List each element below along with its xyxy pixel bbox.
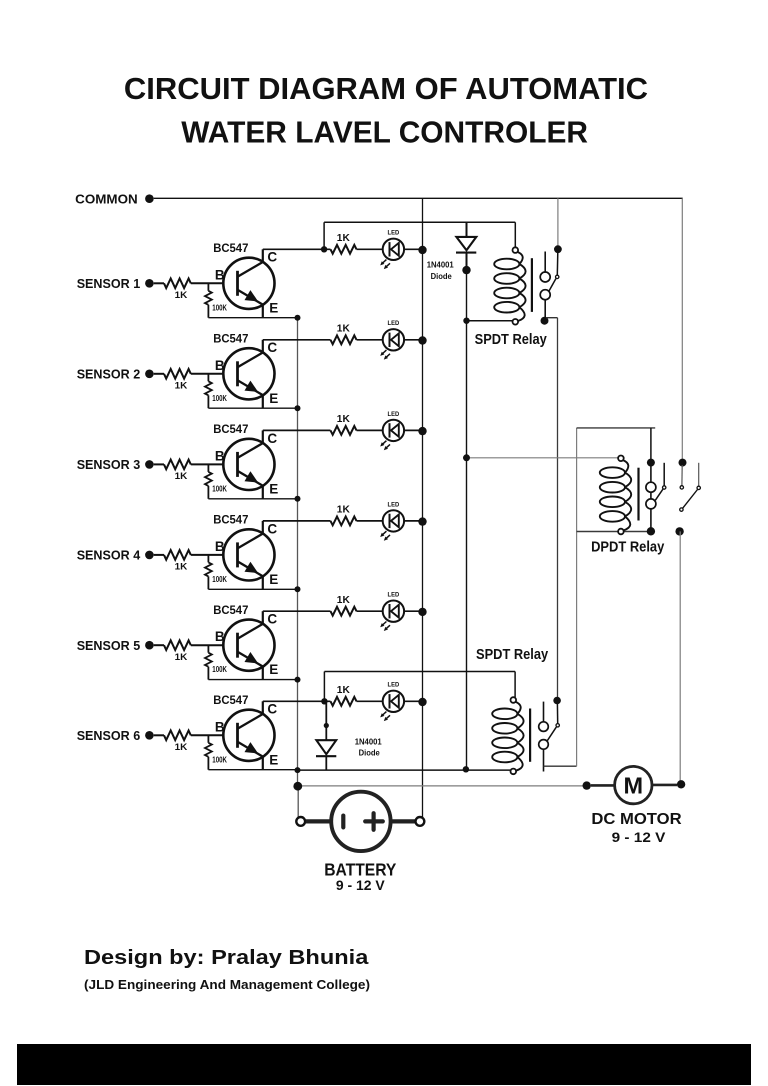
svg-text:C: C — [267, 340, 277, 355]
junction emitter bus sensor 2 — [295, 405, 301, 411]
resistor 1K series (sensor 3 base) — [164, 460, 191, 470]
junction battery minus — [293, 782, 302, 791]
svg-text:1K: 1K — [337, 324, 350, 335]
junction LED bus row 2 — [418, 336, 426, 344]
wire relay K2 pole riser to DPDT — [576, 428, 578, 766]
wire 1K to LED3 — [357, 429, 383, 431]
wire LED5 to bus — [404, 610, 422, 612]
svg-text:100K: 100K — [212, 575, 227, 584]
DPDT right pivot circle A — [680, 486, 683, 489]
motor M1 left lead — [591, 784, 615, 787]
relay K2 NC contact stub — [543, 702, 545, 722]
transistor Q3 BC547 — [223, 439, 274, 490]
svg-text:1K: 1K — [337, 685, 350, 696]
wire emitter row to ground bus (sensor 2) — [208, 407, 297, 409]
wire DPDT right pole to motor — [679, 531, 681, 784]
svg-text:1K: 1K — [175, 471, 188, 482]
junction motor right terminal — [677, 780, 685, 788]
junction LED bus row 3 — [418, 427, 426, 435]
wire DPDT right switch feed from COMMON — [681, 198, 683, 462]
junction LED bus row 1 — [418, 246, 426, 254]
svg-text:E: E — [269, 572, 278, 587]
diode D7 1N4001 (relay 1 flyback) — [456, 222, 476, 270]
LED D2 — [380, 329, 404, 360]
resistor 100K (sensor 3 base-emitter) — [205, 464, 212, 498]
wire 1K to LED2 — [357, 339, 383, 341]
wire relay K2 coil bottom return line — [298, 769, 511, 771]
svg-text:100K: 100K — [212, 484, 227, 493]
wire relay K1 pole out — [546, 317, 558, 319]
svg-text:C: C — [267, 250, 277, 265]
svg-text:B: B — [215, 267, 225, 282]
DPDT left switch arm — [655, 489, 663, 500]
svg-text:1K: 1K — [337, 233, 350, 244]
wire LED2 to bus — [404, 339, 422, 341]
node SENSOR 5 terminal dot — [145, 641, 154, 650]
transistor Q4 BC547 — [223, 529, 274, 580]
battery BT1 terminal plus — [416, 817, 425, 826]
battery BT1 minus bar symbol — [341, 816, 345, 828]
relay K2 pole pivot circle — [556, 724, 559, 727]
wire base of Q6 — [191, 734, 238, 736]
wire emitter of Q1 down — [262, 305, 264, 318]
wire collector row (sensor 6) — [263, 700, 331, 702]
wire COMMON horizontal rail — [154, 197, 683, 199]
wire relay K2 pole out — [544, 765, 577, 767]
svg-text:LED: LED — [388, 411, 400, 418]
wire collector of Q4 up to row — [262, 521, 264, 534]
footer bar — [17, 1044, 751, 1085]
junction relay K1 pole — [541, 317, 549, 325]
resistor 1K series (sensor 4 base) — [164, 550, 191, 560]
svg-text:E: E — [269, 300, 278, 315]
junction collector node sensor 6 — [321, 698, 327, 704]
node COMMON terminal dot — [145, 194, 154, 203]
svg-text:100K: 100K — [212, 394, 227, 403]
svg-text:Diode: Diode — [359, 747, 381, 757]
junction return bus to DPDT coil — [463, 454, 470, 461]
wire collector of Q5 up to row — [262, 611, 264, 624]
wire collector of Q2 up to row — [262, 340, 264, 353]
LED D5 — [380, 601, 404, 632]
relay K1 switch arm — [549, 279, 556, 291]
wire sensor 5 input — [154, 644, 164, 646]
svg-text:B: B — [215, 719, 225, 734]
wire sensor 6 diode branch down — [325, 701, 327, 740]
wire DPDT left switch feed drop — [650, 428, 652, 463]
svg-text:SENSOR 1: SENSOR 1 — [77, 276, 141, 291]
junction relay K1 switch feed — [554, 245, 562, 253]
svg-text:BC547: BC547 — [213, 241, 248, 255]
wire DPDT right pole lead — [681, 465, 683, 486]
wire collector of Q1 up to row — [262, 249, 264, 262]
relay K1 core bar — [531, 258, 533, 312]
wire sensor 2 input — [154, 373, 164, 375]
resistor 1K (LED row 5) — [331, 607, 357, 616]
wire relay 2 coil feed line — [324, 671, 515, 673]
wire collector node 6 up — [323, 672, 325, 702]
svg-text:9 - 12 V: 9 - 12 V — [336, 878, 385, 894]
battery BT1 terminal minus — [296, 817, 305, 826]
wire emitter of Q2 down — [262, 395, 264, 408]
svg-text:BC547: BC547 — [213, 422, 248, 436]
relay K2 contact circle lower — [539, 740, 549, 750]
svg-text:9 - 12 V: 9 - 12 V — [612, 830, 666, 846]
relay K2 switch pole lead — [556, 703, 558, 723]
svg-text:100K: 100K — [212, 303, 227, 312]
svg-text:E: E — [269, 391, 278, 406]
resistor 100K (sensor 2 base-emitter) — [205, 374, 212, 408]
svg-text:(JLD Engineering And Managemen: (JLD Engineering And Management College) — [84, 978, 370, 992]
wire relay 2 coil top drop — [514, 672, 516, 698]
junction ground / return line — [295, 767, 301, 773]
svg-text:B: B — [215, 629, 225, 644]
relay K2 core bar — [529, 709, 531, 762]
svg-text:BATTERY: BATTERY — [324, 860, 396, 880]
wire collector row (sensor 5) — [263, 610, 331, 612]
battery BT1 plus lead — [391, 819, 416, 823]
svg-text:SENSOR 2: SENSOR 2 — [77, 367, 141, 382]
wire sensor 4 input — [154, 554, 164, 556]
wire 1K to LED6 — [357, 700, 383, 702]
svg-text:SPDT Relay: SPDT Relay — [476, 646, 549, 663]
resistor 1K (LED row 4) — [331, 517, 357, 526]
wire collector of Q3 up to row — [262, 430, 264, 443]
wire 1K to LED1 — [357, 248, 383, 250]
svg-text:Diode: Diode — [431, 271, 453, 281]
svg-text:BC547: BC547 — [213, 603, 248, 617]
motor M1 right lead — [652, 784, 677, 787]
svg-text:LED: LED — [388, 501, 400, 508]
wire collector row (sensor 1) — [263, 248, 331, 250]
LED D6 — [380, 691, 404, 722]
svg-text:1K: 1K — [175, 562, 188, 573]
svg-text:B: B — [215, 539, 225, 554]
svg-text:BC547: BC547 — [213, 331, 248, 345]
relay K2 coil — [492, 697, 523, 774]
wire LED1 to bus — [404, 248, 422, 250]
svg-text:SENSOR 4: SENSOR 4 — [77, 548, 141, 563]
junction motor left terminal — [583, 781, 591, 789]
transistor Q5 BC547 — [223, 620, 274, 671]
wire emitter of Q5 down — [262, 667, 264, 680]
svg-text:1K: 1K — [175, 381, 188, 392]
junction diode D8 anode — [324, 723, 329, 728]
node SENSOR 3 terminal dot — [145, 460, 154, 469]
svg-text:1K: 1K — [175, 742, 188, 753]
junction DPDT right switch feed — [679, 459, 687, 467]
wire DPDT top rail — [577, 427, 656, 429]
svg-text:LED: LED — [388, 682, 400, 689]
wire DPDT left pole lead — [650, 465, 652, 482]
svg-text:C: C — [267, 431, 277, 446]
resistor 1K series (sensor 2 base) — [164, 369, 191, 379]
junction LED bus row 5 — [418, 608, 426, 616]
wire LED output bus (COMMON to battery +) — [422, 198, 424, 817]
wire sensor 1 input — [154, 282, 164, 284]
DPDT left contact link — [650, 492, 652, 499]
svg-text:SENSOR 3: SENSOR 3 — [77, 457, 141, 472]
transistor Q2 BC547 — [223, 348, 274, 399]
svg-text:1N4001: 1N4001 — [427, 260, 454, 270]
svg-text:SENSOR 5: SENSOR 5 — [77, 638, 141, 653]
svg-text:M: M — [624, 772, 644, 798]
junction emitter bus sensor 1 — [295, 315, 301, 321]
svg-text:COMMON: COMMON — [75, 191, 138, 206]
junction LED bus row 4 — [418, 517, 426, 525]
DPDT left pivot circle — [663, 486, 666, 489]
wire collector row (sensor 4) — [263, 520, 331, 522]
svg-text:SPDT Relay: SPDT Relay — [475, 331, 548, 348]
diode D8 1N4001 (relay 2 flyback) — [316, 740, 336, 770]
junction coil K1 return — [463, 318, 469, 324]
DPDT right arm end circle — [680, 508, 683, 511]
resistor 1K series (sensor 6 base) — [164, 731, 191, 741]
svg-text:1K: 1K — [175, 290, 188, 301]
battery BT1 minus lead — [306, 819, 332, 823]
DPDT right pivot circle B — [697, 486, 700, 489]
wire sensor 6 input — [154, 734, 164, 736]
svg-text:BC547: BC547 — [213, 513, 248, 527]
svg-text:C: C — [267, 702, 277, 717]
relay K1 contact circle upper — [540, 272, 550, 282]
resistor 1K (LED row 1) — [331, 245, 357, 254]
LED D4 — [380, 510, 404, 541]
transistor Q1 BC547 — [223, 258, 274, 309]
svg-text:LED: LED — [388, 230, 400, 237]
relay K1 contact circle lower — [540, 290, 550, 300]
wire DPDT coil bottom line — [577, 531, 647, 533]
wire base of Q5 — [191, 644, 238, 646]
junction DPDT left switch feed — [647, 459, 655, 467]
resistor 1K (LED row 3) — [331, 426, 357, 435]
svg-text:C: C — [267, 521, 277, 536]
wire diode return bus — [466, 270, 468, 770]
wire relay 1 coil top drop — [514, 222, 516, 247]
svg-text:SENSOR 6: SENSOR 6 — [77, 728, 141, 743]
wire 1K to LED4 — [357, 520, 383, 522]
svg-text:E: E — [269, 662, 278, 677]
relay K1 coil — [494, 247, 525, 324]
wire relay K1 pole to relay K2 feed — [557, 318, 559, 701]
wire collector row (sensor 2) — [263, 339, 331, 341]
relay K2 contact circle upper — [539, 722, 549, 732]
resistor 1K series (sensor 5 base) — [164, 640, 191, 650]
svg-text:LED: LED — [388, 592, 400, 599]
junction emitter bus sensor 3 — [295, 496, 301, 502]
wire relay 1 coil feed line — [324, 221, 515, 223]
node SENSOR 4 terminal dot — [145, 551, 154, 560]
wire emitter ground bus — [297, 318, 299, 787]
wire relay K1 switch feed from COMMON — [557, 198, 559, 249]
wire base of Q3 — [191, 463, 238, 465]
svg-text:CIRCUIT DIAGRAM OF AUTOMATIC: CIRCUIT DIAGRAM OF AUTOMATIC — [124, 72, 648, 106]
wire base of Q1 — [191, 282, 238, 284]
junction LED bus row 6 — [418, 698, 426, 706]
svg-text:Design by: Pralay Bhunia: Design by: Pralay Bhunia — [84, 947, 369, 969]
LED D1 — [380, 239, 404, 270]
wire DPDT coil top from return bus — [467, 457, 619, 459]
wire LED4 to bus — [404, 520, 422, 522]
wire emitter of Q4 down — [262, 576, 264, 589]
wire relay K1 coil bottom to return bus — [467, 320, 513, 322]
relay K2 switch arm — [547, 727, 556, 741]
svg-text:DPDT Relay: DPDT Relay — [591, 539, 665, 556]
node SENSOR 2 terminal dot — [145, 370, 154, 379]
relay K1 NC contact stub — [544, 252, 546, 273]
battery BT1 plus symbol — [365, 813, 383, 830]
svg-text:B: B — [215, 448, 225, 463]
battery BT1 body — [331, 792, 390, 851]
resistor 100K (sensor 6 base-emitter) — [205, 735, 212, 769]
svg-text:1K: 1K — [337, 414, 350, 425]
junction DPDT left pole — [647, 527, 655, 535]
motor M1 body — [615, 766, 652, 803]
relay K3 DPDT coil — [600, 456, 631, 535]
wire collector row (sensor 3) — [263, 429, 331, 431]
wire emitter row to ground bus (sensor 4) — [208, 588, 297, 590]
svg-text:C: C — [267, 612, 277, 627]
DPDT right NO stub — [698, 463, 700, 486]
wire base of Q2 — [191, 373, 238, 375]
wire base of Q4 — [191, 554, 238, 556]
node SENSOR 6 terminal dot — [145, 731, 154, 740]
relay K1 pole pivot circle — [556, 275, 559, 278]
junction D7 cathode on return bus — [462, 266, 470, 274]
junction relay K2 switch feed — [553, 697, 561, 705]
wire emitter of Q6 down — [262, 757, 264, 770]
DPDT left contact circle upper — [646, 482, 656, 492]
node SENSOR 1 terminal dot — [145, 279, 154, 288]
junction collector node sensor 1 — [321, 246, 327, 252]
wire collector node 1 up — [323, 222, 325, 249]
resistor 1K (LED row 2) — [331, 335, 357, 344]
svg-text:1K: 1K — [175, 652, 188, 663]
wire battery minus drop — [297, 786, 299, 817]
svg-text:E: E — [269, 481, 278, 496]
wire collector of Q6 up to row — [262, 701, 264, 714]
svg-text:WATER LAVEL CONTROLER: WATER LAVEL CONTROLER — [181, 116, 588, 150]
wire emitter of Q3 down — [262, 486, 264, 499]
wire battery minus to motor line — [298, 785, 587, 787]
relay K3 core bar — [637, 468, 639, 521]
wire emitter row to ground bus (sensor 1) — [208, 317, 297, 319]
wire 1K to LED5 — [357, 610, 383, 612]
resistor 100K (sensor 1 base-emitter) — [205, 283, 212, 317]
wire emitter row to ground bus (sensor 3) — [208, 498, 297, 500]
wire sensor 3 input — [154, 463, 164, 465]
junction emitter bus sensor 4 — [295, 586, 301, 592]
DPDT left NO stub — [663, 463, 665, 486]
svg-text:B: B — [215, 358, 225, 373]
resistor 100K (sensor 5 base-emitter) — [205, 645, 212, 679]
svg-text:100K: 100K — [212, 665, 227, 674]
wire DPDT left pole down — [650, 509, 652, 532]
svg-text:BC547: BC547 — [213, 693, 248, 707]
svg-text:E: E — [269, 752, 278, 767]
wire relay K1 pole down — [544, 300, 546, 321]
wire relay K2 pole down — [543, 749, 545, 771]
svg-text:100K: 100K — [212, 755, 227, 764]
wire LED3 to bus — [404, 429, 422, 431]
svg-text:DC MOTOR: DC MOTOR — [591, 811, 681, 828]
resistor 100K (sensor 4 base-emitter) — [205, 555, 212, 589]
svg-text:LED: LED — [388, 320, 400, 327]
svg-text:1K: 1K — [337, 505, 350, 516]
wire emitter row to ground bus (sensor 6) — [208, 769, 297, 771]
DPDT left contact circle lower — [646, 499, 656, 509]
LED D3 — [380, 420, 404, 451]
junction return bus on bottom line — [463, 766, 469, 772]
transistor Q6 BC547 — [223, 710, 274, 761]
DPDT right switch arm — [683, 490, 698, 509]
junction DPDT right pole — [675, 527, 683, 535]
svg-text:1N4001: 1N4001 — [355, 736, 382, 746]
resistor 1K series (sensor 1 base) — [164, 279, 191, 289]
relay K1 switch pole lead — [556, 252, 559, 275]
junction emitter bus sensor 5 — [295, 677, 301, 683]
wire emitter row to ground bus (sensor 5) — [208, 679, 297, 681]
svg-text:1K: 1K — [337, 595, 350, 606]
wire LED6 to bus — [404, 700, 422, 702]
resistor 1K (LED row 6) — [331, 697, 357, 706]
